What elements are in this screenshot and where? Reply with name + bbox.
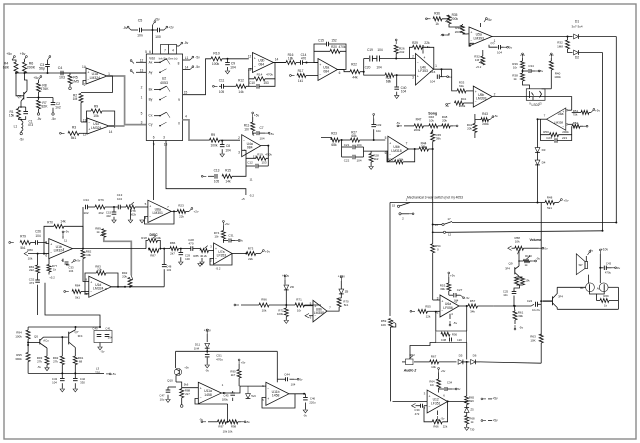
svg-text:+5v: +5v <box>33 76 39 80</box>
capacitor C34 <box>85 205 87 210</box>
resistor R24 <box>364 72 385 75</box>
long bus wire y202.5 <box>390 202 538 204</box>
svg-text:-5v: -5v <box>299 378 303 382</box>
svg-text:-5v: -5v <box>19 138 24 142</box>
resistors R97 R98 bottom <box>203 421 206 423</box>
svg-text:6: 6 <box>149 50 151 54</box>
svg-text:Inh Sig Gen (x): Inh Sig Gen (x) <box>159 57 178 61</box>
svg-text:14: 14 <box>434 223 438 227</box>
resistor R34 <box>449 24 455 27</box>
svg-text:C34: C34 <box>447 381 453 385</box>
pot R35 <box>442 15 449 19</box>
svg-text:14: 14 <box>109 130 113 134</box>
svg-text:C31: C31 <box>228 234 234 238</box>
svg-text:470k: 470k <box>265 153 272 157</box>
capacitor C21b C22b parallel <box>341 140 343 147</box>
resistor R108 bias <box>238 361 240 364</box>
terminal -5v speaker <box>585 256 587 262</box>
svg-text:1458: 1458 <box>272 394 280 398</box>
svg-text:14k: 14k <box>60 220 66 224</box>
terminal input Ay pin13 <box>132 71 134 73</box>
svg-text:R50: R50 <box>543 130 549 134</box>
capacitor C13b <box>117 205 119 210</box>
resistor R86 <box>160 248 170 250</box>
svg-text:-5v: -5v <box>195 56 200 60</box>
svg-text:Cx: Cx <box>149 114 153 118</box>
svg-text:+5v: +5v <box>20 52 26 56</box>
svg-text:-5v: -5v <box>539 69 544 73</box>
svg-text:-5v: -5v <box>101 350 105 354</box>
svg-text:22k: 22k <box>399 157 404 161</box>
svg-text:11: 11 <box>64 239 67 243</box>
svg-text:1k: 1k <box>96 230 100 234</box>
svg-text:19k: 19k <box>525 279 530 283</box>
svg-text:D3: D3 <box>542 148 546 152</box>
wire R10 to U3 <box>222 58 249 60</box>
wire junction down to U2 pin6 <box>152 30 154 54</box>
capacitor C9 <box>227 59 229 63</box>
resistor R76 <box>95 205 105 209</box>
svg-text:Audio 2: Audio 2 <box>403 369 417 373</box>
resistor R65 <box>466 362 468 396</box>
svg-text:−: − <box>267 387 269 391</box>
resistor R95 <box>27 339 29 353</box>
svg-text:-5v: -5v <box>441 417 445 421</box>
resistor R55 input <box>412 310 415 312</box>
svg-text:+12v: +12v <box>204 329 211 333</box>
svg-text:100: 100 <box>155 35 161 39</box>
svg-text:470k: 470k <box>266 72 273 76</box>
wire U7b output down to D5 D6 node <box>466 306 468 331</box>
resistor R45 <box>431 132 435 141</box>
resistor R39 <box>521 61 525 69</box>
svg-text:-5v: -5v <box>457 387 461 391</box>
capacitor C48 below <box>163 249 165 264</box>
svg-text:20k: 20k <box>122 275 127 279</box>
resistors R72 pair <box>518 275 520 278</box>
resistor R11 <box>252 117 254 122</box>
svg-text:100k: 100k <box>212 62 220 66</box>
capacitor C32 <box>37 273 39 280</box>
svg-text:R71: R71 <box>296 298 302 302</box>
svg-text:104: 104 <box>377 48 383 52</box>
terminal bottom of L1 <box>20 132 22 134</box>
terminal +5v R53 <box>448 274 450 277</box>
long wire D2 down right side <box>602 53 604 231</box>
svg-text:+5v: +5v <box>241 361 246 365</box>
svg-text:1M8: 1M8 <box>557 45 563 49</box>
wire switch common down <box>389 203 391 317</box>
op-amp U5a <box>469 27 492 46</box>
svg-text:7: 7 <box>406 142 408 146</box>
svg-text:5k1: 5k1 <box>75 296 80 300</box>
svg-text:5k1: 5k1 <box>20 246 25 250</box>
svg-text:+: + <box>475 90 477 94</box>
svg-text:2: 2 <box>412 55 414 59</box>
svg-text:104: 104 <box>497 51 502 55</box>
resistor R82 <box>81 250 85 259</box>
svg-text:R80: R80 <box>27 248 33 252</box>
feedback R29 above U4b <box>409 47 412 58</box>
svg-text:ACu: ACu <box>43 339 49 343</box>
terminal +5v after R23c <box>189 209 191 211</box>
ground below R5 <box>69 84 71 87</box>
svg-text:104: 104 <box>454 299 459 303</box>
switch pole upper <box>397 205 399 207</box>
op-amp U4a <box>242 135 261 157</box>
svg-text:1N4: 1N4 <box>194 347 200 351</box>
svg-text:C34: C34 <box>83 198 89 202</box>
svg-text:10k: 10k <box>431 365 436 369</box>
svg-text:-5v: -5v <box>303 414 307 418</box>
svg-text:+5v: +5v <box>111 372 116 376</box>
svg-text:104: 104 <box>108 336 113 340</box>
svg-text:180u: 180u <box>222 398 229 402</box>
wire U11a plus input <box>182 387 199 389</box>
svg-text:13: 13 <box>248 68 252 72</box>
svg-text:+: + <box>417 74 419 78</box>
svg-text:Q1: Q1 <box>17 95 22 99</box>
svg-text:+5.2: +5.2 <box>476 65 482 69</box>
svg-text:C16: C16 <box>430 70 436 74</box>
svg-text:+: + <box>90 280 92 284</box>
op-amp U1d <box>89 276 112 297</box>
svg-text:2: 2 <box>494 93 496 97</box>
resistor R67 <box>414 361 430 363</box>
feedback R20 C15 of U3a <box>314 51 330 62</box>
resistor R8 <box>38 80 40 83</box>
svg-text:By: By <box>149 98 153 102</box>
svg-text:6: 6 <box>45 254 47 258</box>
terminal +5v R4 <box>12 57 14 60</box>
terminal input Ax pin12 <box>132 61 134 63</box>
resistor R72 gnd <box>285 305 287 308</box>
svg-text:LM324: LM324 <box>91 126 101 130</box>
svg-text:11: 11 <box>249 178 252 182</box>
svg-text:C13: C13 <box>214 169 220 173</box>
svg-text:C7: C7 <box>259 126 263 130</box>
svg-text:27k: 27k <box>53 360 58 364</box>
pot R92 right <box>128 278 132 287</box>
op-amp U11b 1458 <box>266 382 289 405</box>
svg-text:10n: 10n <box>137 34 143 38</box>
svg-text:3: 3 <box>163 136 165 140</box>
svg-text:R15: R15 <box>225 169 231 173</box>
svg-text:C11: C11 <box>219 79 225 83</box>
svg-text:473: 473 <box>28 123 34 127</box>
wire Q1 collector <box>25 73 28 91</box>
svg-text:C15: C15 <box>318 39 324 43</box>
svg-text:4053: 4053 <box>160 81 168 85</box>
svg-text:LF351: LF351 <box>431 401 441 405</box>
svg-text:75k: 75k <box>573 113 578 117</box>
svg-text:104: 104 <box>35 234 41 238</box>
resistor R70b 5k1 <box>340 294 342 298</box>
svg-text:R72: R72 <box>517 277 522 281</box>
feedback C23 223 <box>541 135 555 141</box>
svg-text:D2: D2 <box>575 56 579 60</box>
svg-text:1M: 1M <box>73 97 78 101</box>
svg-text:10k: 10k <box>86 253 91 257</box>
svg-text:3F4: 3F4 <box>558 295 563 299</box>
resistor R22 after U3a <box>338 70 351 72</box>
IC U2 4053 box <box>146 54 182 141</box>
svg-text:104: 104 <box>259 137 264 141</box>
capacitor C15 to gnd <box>113 207 115 212</box>
U11b output <box>289 393 306 395</box>
svg-text:18k: 18k <box>288 57 294 61</box>
wire U11a minus input to R97 R98 node <box>195 399 228 405</box>
wire U1b row into DISC <box>83 248 146 250</box>
terminal +5v R40 <box>550 55 552 58</box>
svg-text:+: + <box>389 142 391 146</box>
svg-text:470: 470 <box>301 57 307 61</box>
resistor R79 <box>20 241 31 245</box>
svg-text:+5v: +5v <box>245 420 250 424</box>
wire Q5 collector to Q7 base <box>40 337 44 340</box>
terminal +5v above U5a <box>480 23 482 27</box>
svg-text:R55: R55 <box>425 305 431 309</box>
resistor R41 to U5b minus <box>448 103 451 104</box>
svg-text:LF056: LF056 <box>443 306 453 310</box>
svg-text:104: 104 <box>69 269 74 273</box>
svg-text:-5v: -5v <box>445 104 450 108</box>
zener ZD <box>284 280 286 285</box>
terminal +5v R64 <box>438 369 440 372</box>
svg-text:5: 5 <box>145 50 147 54</box>
long wire from R57 to C24 <box>494 305 532 307</box>
U8a output R23c 22k <box>171 210 177 212</box>
capacitor C5 <box>131 29 138 31</box>
wire C32 down to bus <box>45 283 100 327</box>
svg-text:330: 330 <box>80 381 85 385</box>
resistor R180 wiper <box>518 250 520 266</box>
svg-text:R85: R85 <box>193 254 199 258</box>
svg-text:R9: R9 <box>211 133 215 137</box>
svg-text:390k: 390k <box>15 357 22 361</box>
junction R23 R27 <box>340 139 351 141</box>
wire center down to R54 <box>432 225 434 244</box>
svg-text:15k: 15k <box>9 114 15 118</box>
svg-text:1k: 1k <box>435 22 439 26</box>
svg-text:−: − <box>417 61 419 65</box>
svg-text:176K: 176K <box>41 87 50 91</box>
svg-text:R180: R180 <box>525 254 532 258</box>
wire U1c minus in <box>81 121 87 123</box>
svg-text:104: 104 <box>401 90 407 94</box>
resistor R15 <box>222 174 232 178</box>
terminal +5v above junction <box>152 25 154 30</box>
svg-text:34k: 34k <box>470 310 475 314</box>
svg-text:+5v: +5v <box>76 259 81 263</box>
svg-text:-5v: -5v <box>184 41 189 45</box>
op-amp U3a <box>318 59 338 81</box>
svg-text:R98: R98 <box>231 425 237 429</box>
svg-text:13: 13 <box>538 102 542 106</box>
svg-text:R84: R84 <box>75 284 81 288</box>
input terminal C13 R15 <box>203 175 206 177</box>
svg-text:4: 4 <box>185 115 187 119</box>
svg-text:R29: R29 <box>412 41 418 45</box>
svg-text:-5v: -5v <box>205 369 209 373</box>
svg-text:AL: AL <box>597 287 601 291</box>
svg-text:L1: L1 <box>14 125 18 129</box>
svg-text:14k: 14k <box>238 90 244 94</box>
svg-text:13: 13 <box>140 68 144 72</box>
svg-text:68k: 68k <box>331 143 337 147</box>
resistor R1 parallel C1 <box>19 106 26 108</box>
wire Q1 emitter <box>20 101 22 107</box>
switch pole lower <box>399 213 401 215</box>
svg-text:+5v: +5v <box>64 230 69 234</box>
svg-text:5: 5 <box>385 136 387 140</box>
U8a feedback <box>145 211 175 224</box>
svg-text:22k: 22k <box>443 425 448 429</box>
resistor R2 <box>79 94 83 103</box>
svg-text:2k7: 2k7 <box>170 252 175 256</box>
wire U2 pin9 down to U8a <box>153 141 155 201</box>
svg-text:10k 10k: 10k 10k <box>223 430 233 434</box>
op-amp U4b main <box>416 54 434 86</box>
svg-text:68k: 68k <box>351 134 357 138</box>
resistor R77 <box>48 258 50 265</box>
svg-text:10r: 10r <box>214 235 218 239</box>
wires into 1502 <box>523 81 530 89</box>
wire from R62 up <box>410 343 436 360</box>
wire output node down to R63 <box>540 301 542 335</box>
resistor R32 trim <box>481 56 485 65</box>
svg-text:10k: 10k <box>262 309 267 313</box>
svg-text:-5v: -5v <box>195 65 200 69</box>
svg-text:LM301: LM301 <box>153 211 163 215</box>
speaker SP <box>576 254 585 275</box>
wire Q1 base node <box>16 73 24 96</box>
svg-text:R56: R56 <box>452 333 458 337</box>
svg-text:5v6: 5v6 <box>251 394 256 398</box>
terminal after R43 <box>490 117 492 119</box>
resistor R96 <box>236 304 239 306</box>
svg-text:132: 132 <box>166 268 171 272</box>
svg-text:+10v: +10v <box>282 274 289 278</box>
svg-text:-5v: -5v <box>508 46 513 50</box>
zener D3 <box>537 119 539 147</box>
svg-text:242: 242 <box>399 50 404 54</box>
wire R59 to U12 <box>390 327 392 401</box>
resistor R12 <box>236 84 246 88</box>
svg-text:10k: 10k <box>515 240 520 244</box>
svg-text:22k: 22k <box>248 257 253 261</box>
svg-text:1458: 1458 <box>204 393 212 397</box>
resistor R47 <box>404 125 414 127</box>
svg-text:104: 104 <box>356 159 361 163</box>
wire minus input R80 <box>28 253 49 255</box>
svg-text:153: 153 <box>263 81 269 85</box>
capacitor C28 series <box>190 246 192 251</box>
terminal input R36 <box>427 18 430 20</box>
resistor R74 bias <box>222 222 224 225</box>
svg-text:-5v: -5v <box>536 257 540 261</box>
resistor R42 right <box>473 123 477 132</box>
svg-text:LF353: LF353 <box>217 253 227 257</box>
svg-text:R86: R86 <box>170 241 176 245</box>
svg-text:0v: 0v <box>544 246 548 250</box>
svg-text:−: − <box>470 39 472 43</box>
svg-text:17: 17 <box>447 217 451 221</box>
svg-text:1: 1 <box>435 64 437 68</box>
wire U5b out <box>492 97 572 111</box>
resistor R91 <box>73 356 77 365</box>
svg-text:R66: R66 <box>433 425 439 429</box>
svg-text:+5v: +5v <box>269 132 274 136</box>
terminal below R7 to -5v <box>38 109 40 113</box>
capacitor C27 <box>449 294 453 296</box>
op-amp U11a 1458 <box>198 382 221 404</box>
svg-text:R14: R14 <box>257 72 263 76</box>
svg-text:10k: 10k <box>156 236 161 240</box>
svg-text:+5v: +5v <box>450 274 455 278</box>
wire R34 to U5a <box>463 33 470 35</box>
capacitor C39 <box>424 405 427 407</box>
svg-text:20k: 20k <box>442 118 447 122</box>
terminal -5v left of C5 <box>129 28 131 30</box>
svg-text:+: + <box>441 299 443 303</box>
capacitor C42b <box>74 373 76 378</box>
wire U1a feedback <box>81 76 112 93</box>
svg-text:R47: R47 <box>416 118 422 122</box>
svg-text:14: 14 <box>275 58 279 62</box>
svg-text:153: 153 <box>261 161 266 165</box>
resistor R92b <box>61 337 63 356</box>
svg-text:2: 2 <box>84 83 86 87</box>
op-amp U1a <box>86 68 107 84</box>
svg-text:22k: 22k <box>424 41 430 45</box>
capacitor C30 bias <box>223 240 228 242</box>
resistor R81 <box>37 254 39 265</box>
grounds below U7a <box>198 264 202 267</box>
svg-text:−: − <box>50 251 52 255</box>
svg-text:LM393: LM393 <box>476 96 486 100</box>
notch filter C19 C20 <box>363 59 365 72</box>
svg-text:R70: R70 <box>47 221 53 225</box>
svg-text:10k: 10k <box>97 268 102 272</box>
svg-text:LF353: LF353 <box>418 69 428 73</box>
svg-text:084: 084 <box>323 69 329 73</box>
svg-text:C21: C21 <box>344 143 350 147</box>
resistor R93 <box>45 356 49 365</box>
resistor R64 <box>438 373 440 380</box>
svg-text:39k: 39k <box>440 287 445 291</box>
pot R46 <box>424 125 429 127</box>
svg-text:105: 105 <box>214 180 220 184</box>
svg-text:100k: 100k <box>554 75 561 79</box>
terminal +5v L3 <box>106 373 109 375</box>
svg-text:+: + <box>470 31 472 35</box>
svg-text:+5v: +5v <box>486 18 492 22</box>
resistor R54 <box>431 244 435 253</box>
svg-text:R19: R19 <box>257 153 263 157</box>
junction C5 C6 <box>142 29 158 31</box>
svg-text:+5v: +5v <box>441 369 446 373</box>
svg-text:5k1: 5k1 <box>547 206 552 210</box>
transistor Q10b <box>174 368 181 375</box>
svg-text:−: − <box>389 153 391 157</box>
svg-text:Z5: Z5 <box>470 408 474 412</box>
terminal +5v 1502 left <box>522 55 524 58</box>
svg-text:12k: 12k <box>426 315 431 319</box>
op-amp U3b <box>253 53 274 73</box>
transistor Q1 <box>23 92 25 100</box>
resistor R44 output <box>408 148 419 150</box>
